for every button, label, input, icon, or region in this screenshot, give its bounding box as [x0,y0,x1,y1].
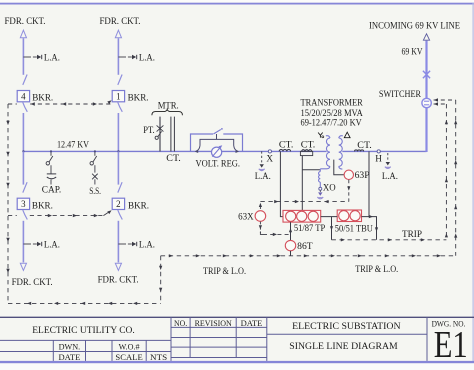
switch station service disconnect [94,151,96,155]
wire metering brace [152,109,183,115]
svg-text:51/87 TP: 51/87 TP [294,223,325,233]
wire feeder 2 from bus [117,151,119,184]
wire trip bus left riser to breakers [7,104,9,303]
svg-text:S.S.: S.S. [89,186,101,196]
surge arrester L.A. feeder 2 [118,243,126,245]
breaker BKR 2 [118,182,122,192]
relay 50/51 TBU box [337,210,361,222]
svg-text:69 KV: 69 KV [402,47,423,57]
svg-text:MTR.: MTR. [158,101,179,111]
svg-text:BKR.: BKR. [128,200,149,210]
svg-text:FDR. CKT.: FDR. CKT. [100,16,141,26]
svg-text:VOLT. REG.: VOLT. REG. [196,158,241,168]
wire 63X upper stub [259,206,261,210]
svg-text:XO: XO [323,182,336,192]
switch regulator bypass blade [213,130,220,135]
svg-text:CT.: CT. [301,139,316,149]
svg-text:REVISION: REVISION [195,318,233,328]
svg-text:NTS: NTS [150,352,167,362]
svg-text:DWN.: DWN. [59,342,81,352]
svg-text:BKR.: BKR. [32,92,53,102]
svg-text:TRIP & L.O.: TRIP & L.O. [355,264,398,274]
svg-text:DATE: DATE [241,318,263,328]
wire TP tap to trip bus [331,217,333,240]
wire bushing CT secondary [301,156,303,211]
svg-text:50/51 TBU: 50/51 TBU [335,224,373,234]
wire trip interlock dashed BKR3-BKR2 [8,215,17,217]
wire 69 kV line transformer to corner [342,150,426,152]
svg-text:1: 1 [116,91,120,101]
wire top border line [0,3,474,5]
relay 63X [255,211,266,222]
svg-text:E1: E1 [434,324,468,366]
svg-text:L.A.: L.A. [139,53,155,63]
wire s.s. branch [94,165,96,172]
wire transformer tank to 63P [334,160,344,175]
transformer T1 high-side winding [339,136,343,138]
wire TRIP & L.O. return riser to switcher [455,100,457,256]
wire feeder 3 outgoing arrow [20,263,26,270]
svg-text:CT.: CT. [166,153,181,163]
wire CT secondary to 51/87 [280,151,283,216]
voltage regulator VR circle [212,147,222,157]
surge arrester L.A. feeder 3 [23,243,31,245]
svg-text:TRIP & L.O.: TRIP & L.O. [203,266,246,276]
svg-text:L.A.: L.A. [139,240,155,250]
svg-text:X: X [266,154,273,164]
wire feeder 2 lower vertical [117,221,119,263]
svg-text:15/20/25/28 MVA: 15/20/25/28 MVA [301,108,364,118]
wire feeder 2 outgoing arrow [115,263,121,270]
node XO [319,187,322,190]
wire trip interlock dashed BKR4-BKR1 [8,103,17,105]
svg-text:FDR. CKT.: FDR. CKT. [5,16,46,26]
wire TRIP return riser to switcher [445,104,447,240]
wire incoming 69 kV vertical upper [425,41,427,99]
wire 63X lower stub to 86T [259,222,261,233]
svg-text:BKR.: BKR. [32,200,53,210]
svg-text:SWITCHER: SWITCHER [379,89,422,99]
svg-text:L.A.: L.A. [382,171,398,181]
transformer T1 delta symbol [344,132,350,138]
wire TRIP & L.O. bus [161,255,456,257]
voltage regulator U-VR bypass loop [191,134,214,151]
svg-text:W.O.#: W.O.# [119,342,141,352]
wire 12.47 kV main bus [23,150,326,152]
svg-text:CAP.: CAP. [42,184,61,194]
svg-text:DATE: DATE [59,352,81,362]
wire feeder 4 to bus [22,113,24,151]
title block bottom blue border [0,361,474,363]
svg-text:4: 4 [21,91,26,101]
relay 86T [285,240,295,250]
wire TRIP dashed line [332,239,447,241]
wire incoming 69 kV vertical lower [425,108,427,152]
svg-text:ELECTRIC SUBSTATION: ELECTRIC SUBSTATION [292,322,401,332]
svg-text:TRIP: TRIP [402,229,422,239]
wire TBU output to trip [362,217,377,240]
fuse PT star [159,125,161,133]
wire TP to 86T [290,222,292,240]
svg-text:FDR. CKT.: FDR. CKT. [98,275,139,285]
svg-text:69-12.47/7.20 KV: 69-12.47/7.20 KV [301,118,363,128]
wire feeder 1 to bus [117,113,119,151]
wire incoming line arrow [423,34,429,40]
wire feeder 3 lower vertical [22,221,24,263]
capacitor CAP [47,173,56,175]
wire trip bus left riser [160,256,162,304]
wire 63P trip dashed [348,180,350,202]
current transformer CT metering [170,117,172,152]
surge arrester L.A. at H bushing [387,153,389,161]
svg-text:NO.: NO. [174,318,187,328]
svg-text:INCOMING 69 KV LINE: INCOMING 69 KV LINE [369,21,460,31]
svg-text:L.A.: L.A. [44,240,60,250]
svg-text:63P: 63P [355,170,370,180]
svg-text:PT.: PT. [143,125,155,135]
svg-text:BKR.: BKR. [128,92,149,102]
reactor XO grounding coil [319,172,321,183]
svg-text:FDR. CKT.: FDR. CKT. [12,277,53,287]
svg-text:SCALE: SCALE [115,352,142,362]
svg-text:L.A.: L.A. [44,53,60,63]
svg-text:CT.: CT. [357,140,372,150]
transformer T1 low-side winding [326,136,330,138]
title block top border [0,316,474,318]
switch line disconnect X [423,71,430,78]
svg-text:L.A.: L.A. [255,171,271,181]
wire 86T to trip bus [290,251,292,256]
wire CT string TP to TBU [321,216,338,218]
wire 63 dashed signal bus [260,201,348,203]
fuse S.S. [92,174,98,180]
svg-text:2: 2 [116,199,120,209]
wire 69kV CT secondary to 50/51 [368,151,370,216]
circuit switcher CS [422,98,431,107]
breaker BKR 4 [23,75,27,85]
transformer T1 wye symbol [318,133,323,138]
surge arrester L.A. feeder 4 [23,56,31,58]
wire neutral CT tie [302,169,320,171]
breaker BKR 3 [23,182,27,192]
svg-text:63X: 63X [238,212,254,222]
ground arrester at XO [319,190,321,192]
svg-text:86T: 86T [297,241,313,251]
wire neutral to XO [319,169,321,172]
svg-text:3: 3 [21,199,26,209]
breaker BKR 1 [118,75,122,85]
wire feeder 1 upper vertical [117,38,119,75]
svg-text:CT.: CT. [279,139,294,149]
wire regulator inner frame [216,134,218,139]
svg-text:H: H [375,154,382,164]
relay 63P [344,170,353,179]
svg-text:TRANSFORMER: TRANSFORMER [301,98,364,108]
node X bushing [268,150,271,153]
wire cap branch [50,165,52,173]
node H bushing [377,150,380,153]
relay 51/87 TP box [283,210,321,222]
switch capacitor disconnect [50,151,52,155]
wire feeder 4 upper vertical [22,38,24,75]
wire feeder 3 from bus [22,151,24,184]
svg-text:SINGLE LINE DIAGRAM: SINGLE LINE DIAGRAM [289,342,397,352]
surge arrester L.A. feeder 1 [118,56,126,58]
switch PT blade [155,136,158,139]
surge arrester L.A. at X bushing [261,151,263,163]
wire trip bus bottom run [8,302,161,304]
wire feeder 1 outgoing arrow [115,30,121,38]
svg-text:ELECTRIC UTILITY CO.: ELECTRIC UTILITY CO. [32,326,135,336]
wire right border line [473,3,474,363]
wire feeder 4 outgoing arrow [20,30,26,38]
svg-text:12.47 KV: 12.47 KV [57,140,89,150]
